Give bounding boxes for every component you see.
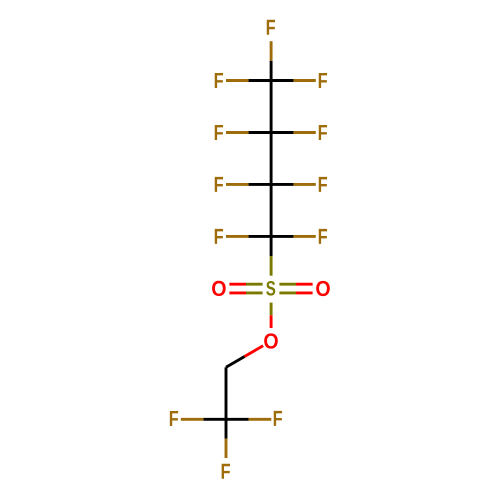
atom O2 bbox=[316, 281, 330, 296]
bond C1-FL1 bbox=[226, 79, 271, 82]
bond C4-FL4 bbox=[226, 235, 271, 238]
atom S bbox=[266, 281, 275, 296]
bond C2-FL2 bbox=[226, 131, 271, 134]
atom F L3 bbox=[215, 177, 223, 192]
double bond S=O2 right bbox=[279, 284, 312, 293]
bond C6-Fbot bbox=[225, 419, 228, 458]
atom F L4 bbox=[215, 229, 223, 244]
bond C4-S bbox=[270, 236, 273, 275]
atom F R4 bbox=[319, 229, 327, 244]
atom F L2 bbox=[215, 125, 223, 140]
atom O1 bbox=[212, 281, 226, 296]
bond C5-C6 bbox=[225, 367, 228, 419]
bond C4-FR4 bbox=[271, 235, 316, 238]
double bond S=O1 left bbox=[229, 284, 262, 293]
bond O3-C5 bbox=[226, 346, 263, 368]
atom F R2 bbox=[319, 125, 327, 140]
bond C2-C3 bbox=[270, 133, 273, 185]
bond C3-FR3 bbox=[271, 183, 316, 186]
atom F bottom-left bbox=[170, 411, 178, 426]
bond C6-FbR bbox=[226, 418, 271, 421]
bond S-O3 bbox=[270, 303, 273, 328]
bond C3-FL3 bbox=[226, 183, 271, 186]
bond C3-C4 bbox=[270, 184, 273, 236]
bond C1-FR1 bbox=[271, 79, 316, 82]
atom F bottom bbox=[222, 464, 230, 479]
bond C2-FR2 bbox=[271, 131, 316, 134]
atom F top bbox=[267, 20, 275, 35]
atom F bottom-right bbox=[274, 411, 282, 426]
atom F R3 bbox=[319, 177, 327, 192]
bond C6-FbL bbox=[181, 418, 226, 421]
atom F R1 bbox=[319, 73, 327, 88]
atom O3 bbox=[264, 333, 278, 348]
bond C1-C2 bbox=[270, 81, 273, 133]
bond Ftop-C1 bbox=[270, 41, 273, 80]
atom F L1 bbox=[215, 73, 223, 88]
